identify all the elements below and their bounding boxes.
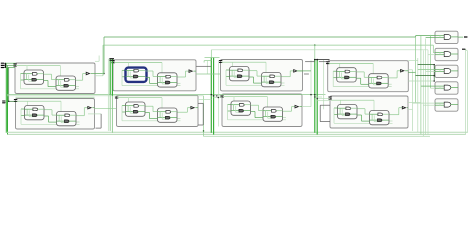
wire FF3.A input S [337, 70, 345, 72]
wire gap4 v3 [417, 58, 419, 132]
wire FF4.B input R [57, 120, 65, 122]
wire FF4.B Q out [70, 114, 76, 116]
wire gap3 v5 [323, 60, 325, 109]
wire left vertical 2 [7, 68, 9, 135]
wire SET to FF0 [6, 64, 15, 66]
wire Y4 in1 [435, 102, 444, 104]
junction gap3 feed1 [314, 96, 315, 97]
wire gap2 FF6 feed2 [214, 97, 222, 99]
wire FF5 feedback riser [121, 106, 123, 121]
gate FF1.B.G2 (NAND) [166, 81, 170, 84]
wire gap3 FF7 feed1 [315, 96, 322, 98]
wire FF4 A.Qn to B [45, 115, 49, 117]
wire Y4 riser [439, 103, 441, 105]
gate FF5.A.G1 (NAND) [134, 105, 139, 108]
wire to Y0 bend [415, 36, 417, 38]
wire FF0.B input R [56, 85, 64, 87]
input pin E [2, 102, 6, 103]
flip-flop stage FF4 [16, 99, 95, 130]
wire FF5 A in2 [122, 111, 126, 113]
wire FF5 A in1 [122, 105, 126, 107]
wire FF0.A input S [24, 73, 32, 75]
output pin FF5.Q [191, 106, 194, 108]
wire FF1.A Q out [139, 70, 145, 72]
wire FF2.A Q out [243, 69, 249, 71]
pin stubs FF2 inputs [219, 61, 222, 63]
wire FF3.A Q out [350, 70, 356, 72]
wire FF5 A.Qn drop [149, 113, 151, 119]
wire FF5.A input S [126, 105, 134, 107]
wire CLK to FF0 [6, 62, 15, 64]
wire gap3 FF7 feed2 [317, 98, 330, 100]
wire FF7 clock top run [331, 99, 374, 101]
wire FF4.A input R [25, 114, 33, 116]
wire FF2 Q to border [298, 70, 302, 72]
wire Y1 riser [439, 53, 441, 55]
wire FF6 to out pin [292, 106, 296, 108]
wire FF7 out link [408, 102, 421, 104]
wire Y0 input feed [416, 35, 435, 37]
wire FF5 B.Q up [186, 108, 188, 113]
wire FF0 out2 top run [103, 44, 433, 46]
wire FF3.A feedback riser [340, 73, 342, 79]
wire FF4.A inner riser [26, 109, 28, 115]
output pin OUT [464, 36, 468, 37]
wire FF6.Q exit [302, 106, 311, 108]
wire FF1 A in2 [122, 76, 126, 78]
wire FF1.A inner riser [127, 71, 129, 77]
wire FF1 B.Q up [185, 71, 187, 77]
wire FF3 A.Qn to B [357, 77, 361, 79]
wire FF0.A Q out [37, 73, 43, 75]
wire FF7.B Qn out [382, 119, 389, 121]
wire Y2 in1 [435, 69, 444, 71]
wire FF0 clock drop A [26, 66, 28, 74]
wire FF0 B in2 [48, 86, 56, 88]
wire FF1 feedback bottom run [122, 85, 181, 87]
latch FF2.A [230, 67, 250, 81]
latch FF1.A (selected) [126, 68, 147, 82]
junction gap3 feed2 [317, 98, 318, 99]
wire FF4 A in2 [21, 115, 25, 117]
wire FF3 clock drop A [339, 63, 341, 71]
wire FF6.A Q out [244, 104, 250, 106]
wire FF4.B input S [57, 114, 65, 116]
wire FF0.B input S [56, 79, 64, 81]
wire FF4.B cross link [61, 122, 68, 124]
wire gap3 pair a upper [314, 45, 316, 59]
wire FF2 A.Q to B [250, 70, 258, 72]
wire FF2 clock drop A [232, 62, 234, 70]
wire FF5 feedback bottom run [122, 120, 181, 122]
wire FF0 A.Qn drop [47, 81, 49, 87]
wire Y3 out [450, 87, 458, 89]
wire FF2 A.Q drop [256, 71, 258, 76]
wire FF1 out top run [211, 49, 428, 51]
gate FF2.A.G1 (NAND) [238, 69, 243, 72]
wire gap1 bright pair b [111, 59, 113, 96]
gate FF4.A.G1 (NAND) [33, 108, 38, 111]
wire gap2 corner h2 [204, 60, 211, 62]
wire FF0.B Q out [69, 79, 75, 81]
gate FF2.B.G1 (NAND) [270, 75, 275, 78]
wire FF1.B Qn out [170, 81, 177, 83]
wire gap3 gray loop v [319, 105, 321, 121]
wire FF6 feedback riser [227, 105, 229, 120]
wire gap2 FF6 feed1 [211, 95, 222, 97]
wire left vertical 1 upper [5, 63, 7, 68]
latch FF6.B [263, 107, 283, 121]
wire FF2.A feedback riser [233, 71, 235, 77]
wire left vertical 1 [5, 68, 7, 133]
output pin FF7.Q [402, 106, 405, 108]
wire FF4 to out pin [84, 107, 88, 109]
latch FF3.A [337, 68, 357, 82]
wire FF7.B Q out [383, 113, 389, 115]
wire FF7.Q out [408, 108, 413, 110]
wire FF0.A feedback riser [28, 75, 30, 81]
wire Y3 in1 feed [421, 85, 435, 87]
wire gap3 gray h1 [305, 61, 315, 63]
wire FF4 B.Q out run [77, 115, 85, 117]
junction FF0.Q [103, 73, 105, 75]
wire RST to FF0 [6, 67, 15, 69]
wire FF1 B in2 [150, 82, 158, 84]
wire FF6 B in2 [255, 117, 263, 119]
wire FF7 B.Q out run [390, 114, 399, 116]
wire FF1.B Q out [171, 76, 177, 78]
wire FF3.B Qn out [381, 82, 388, 84]
wire FF3 Q to border [405, 70, 408, 72]
gate FF7.B.G2 (NAND) [378, 119, 383, 122]
wire FF5 B.Qn out [178, 118, 181, 120]
wire gap2 corner stub [203, 61, 205, 63]
wire gap3 v1 lower [310, 95, 312, 107]
gate FF0.A.G1 (NAND) [32, 73, 37, 76]
wire gap4 h5 [408, 80, 434, 82]
wire FF4.B Qn out [69, 120, 76, 122]
wire FF0 A.Q to B [44, 73, 52, 75]
wire FF1 A.Q to B [146, 70, 154, 72]
wire Y1 in2 feed [428, 54, 435, 56]
wire FF6.A input S [231, 104, 239, 106]
wire Y2 in2 feed [426, 71, 435, 73]
wire FF7.A input S [338, 107, 346, 109]
wire EN vertical [465, 49, 467, 134]
junction gap3 b [316, 59, 318, 61]
gate FF6.A.G1 (NAND) [239, 104, 244, 107]
input pin CLK [1, 63, 5, 64]
wire FF1 Q to border [194, 70, 197, 72]
wire FF5 clock drop A [128, 98, 130, 106]
wire gap3 bright pair b [316, 59, 318, 135]
junction gap3 row a [310, 94, 312, 96]
wire FF2.B cross link [266, 83, 273, 85]
wire into FF4 [9, 100, 16, 102]
latch FF7.B [370, 111, 390, 125]
wire FF5 to out pin [187, 107, 191, 109]
wire FF4 A.Qn drop [48, 116, 50, 122]
wire FF0.Q riser [103, 37, 105, 74]
wire FF6 A in1 [228, 104, 232, 106]
output pin FF4.Q [88, 106, 91, 108]
wire FF5 clock top run [118, 97, 163, 99]
wire FF7 A in2 [334, 114, 338, 116]
wire FF5 Q to border [195, 107, 198, 109]
wire FF5 B in1 [153, 111, 158, 113]
wire FF4 Q to border [92, 107, 94, 109]
wire FF7 A.Q drop [364, 109, 366, 114]
wire Y3 in2 [435, 87, 444, 89]
wire Y0 out [450, 36, 458, 38]
wire FF1.B cross link [162, 83, 169, 85]
wire FF4 B.Q up [83, 108, 85, 116]
wire gap4 v8 [430, 35, 432, 88]
wire FF2 A.Qn to B [250, 76, 254, 78]
wire gap2 gray loop bottom [198, 124, 203, 126]
wire FF6.A input R [231, 110, 239, 112]
output AND stage Y0 [435, 31, 458, 43]
gate Y2 AND [444, 69, 451, 74]
wire FF6 B.Q out run [283, 110, 292, 112]
wire FF3.B input R [369, 82, 377, 84]
input pin D [2, 100, 6, 101]
wire Y2 riser [439, 70, 441, 72]
output pin FF0.Q [86, 72, 89, 74]
wire FF0.Q out [95, 73, 104, 75]
wire FF5 A.Q drop [152, 106, 154, 111]
output pin FF3.Q [401, 70, 404, 72]
flip-flop stage FF6 [222, 94, 302, 127]
junction left pins [5, 63, 6, 68]
wire FF5.Q to FF6 [198, 99, 211, 101]
gate FF4.A.G2 (NAND) [33, 114, 38, 117]
wire FF7 feedback bottom run [334, 122, 393, 124]
wire gap4 v4 [420, 36, 422, 134]
wire FF2 to out pin [290, 70, 294, 72]
wire FF3 clock drop B [372, 63, 374, 73]
wire FF6.A cross link [236, 111, 243, 113]
wire FF0.A input R [24, 79, 32, 81]
wire FF3 feedback riser [332, 71, 334, 86]
wire row bus 2 [7, 95, 204, 97]
wire FF3 to out pin [397, 70, 401, 72]
wire FF0 A in2 [21, 79, 25, 81]
wire FF2 B.Q up [289, 71, 291, 77]
wire FF0.B feedback riser [60, 81, 62, 87]
wire FF3 clock top run [329, 62, 374, 64]
latch FF7.A [338, 105, 358, 119]
wire FF0 clock top run [16, 65, 61, 67]
wire Y2 in1 feed [418, 69, 435, 71]
gate FF7.B.G1 (NAND) [378, 113, 383, 116]
wire FF6 B.Qn out [283, 117, 286, 119]
wire Y1 in1 feed [433, 52, 435, 54]
input pin RST [1, 67, 5, 68]
wire FF4 B.Qn out [77, 121, 80, 123]
wire FF0.Q top run [104, 36, 416, 38]
wire FF1.A feedback riser [129, 72, 131, 78]
wire gap2 v5 [218, 60, 220, 127]
wire bottom bus 1 [6, 131, 467, 133]
wire gap1 gray return [96, 127, 102, 129]
wire FF6 B.Q up [291, 107, 293, 112]
wire EN stub [464, 48, 466, 50]
gate FF1.B.G1 (NAND) [166, 75, 171, 78]
wire FF3 B in2 [361, 83, 369, 85]
wire gap2 pair a upper [210, 50, 212, 58]
wire gap3 gray loop top [320, 104, 330, 106]
wire FF1 A in1 [122, 69, 126, 71]
gate Y1 AND [444, 52, 451, 57]
wire FF6.A feedback riser [235, 106, 237, 112]
wire FF3.B cross link [373, 84, 380, 86]
wire FF7.A input R [338, 113, 346, 115]
wire FF0 feedback bottom run [21, 88, 80, 90]
wire FF0 B.Qn out [76, 86, 79, 88]
wire FF5 A.Q to B [146, 105, 154, 107]
wire FF6.A Qn out [244, 110, 251, 112]
latch FF3.B [369, 74, 389, 88]
wire gap2 bright pair b [213, 58, 215, 135]
wire FF0.B cross link [61, 86, 68, 88]
wire FF6.B Qn out [276, 116, 283, 118]
gate FF3.B.G1 (NAND) [377, 76, 382, 79]
latch FF4.B [57, 112, 77, 126]
wire FF2.A cross link [234, 77, 241, 79]
wire FF1 to out pin [186, 70, 190, 72]
wire FF7 to out pin [399, 107, 403, 109]
wire FF5.A inner riser [127, 106, 129, 112]
wire FF0 A.Qn to B [44, 80, 48, 82]
wire FF7 A.Qn drop [361, 115, 363, 121]
gate Y0 AND [444, 35, 451, 40]
output pin FF6.Q [295, 105, 298, 107]
wire FF6.B Q out [276, 110, 282, 112]
wire FF2 A.Qn drop [253, 77, 255, 83]
wire gap4 h4 [416, 75, 435, 77]
wire FF3 B in1 [364, 76, 369, 78]
latch FF6.A [231, 101, 251, 115]
wire FF7.A Q out [351, 107, 357, 109]
wire gap1 gray drop [100, 114, 102, 128]
gate FF3.A.G1 (NAND) [345, 70, 350, 73]
wire FF7.A inner riser [339, 108, 341, 114]
wire gap4 v5 [422, 50, 424, 136]
wire FF0 out2 riser [102, 45, 104, 76]
wire bottom bus 3 [204, 135, 431, 137]
gate FF6.A.G2 (NAND) [239, 109, 244, 112]
wire Y4 in2 feed [423, 104, 435, 106]
wire FF0.A Qn out [37, 79, 44, 81]
wire FF6 A.Qn to B [251, 111, 255, 113]
gate FF3.A.G2 (NAND) [345, 76, 350, 79]
wire FF3 A.Q to B [357, 71, 365, 73]
wire FF1.B input S [158, 76, 166, 78]
wire FF7.B input S [370, 113, 378, 115]
wire Y3 riser [439, 86, 441, 88]
gate FF7.A.G2 (NAND) [346, 113, 351, 116]
wire FF2.A Qn out [242, 75, 249, 77]
flip-flop stage FF1 [113, 60, 196, 91]
wire FF4 clock drop A [27, 101, 29, 109]
wire FF4 clock top run [17, 100, 62, 102]
wire gap1 bright pair a [109, 59, 111, 95]
wire FF5 B.Q out run [178, 111, 188, 113]
junction gap2 feed2 [218, 97, 219, 98]
junction gap2 a [211, 94, 213, 96]
wire FF2 clock top run [222, 61, 267, 63]
wire FF2.B Q out [275, 75, 281, 77]
wire FF3 A in2 [333, 77, 337, 79]
wire FF1.A Qn out [138, 75, 145, 77]
wire FF4.Qn exit [88, 113, 101, 115]
flip-flop stage FF3 [328, 61, 409, 92]
wire FF7 clock drop B [373, 100, 375, 110]
wire FF4.A cross link [29, 116, 36, 118]
wire FF6.B feedback riser [267, 112, 269, 118]
wire FF5.A Q out [139, 105, 145, 107]
wire FF3 A in1 [333, 70, 337, 72]
wire FF3.A Qn out [349, 76, 356, 78]
wire FF6.A inner riser [233, 105, 235, 111]
wire FF3 feedback bottom run [333, 86, 392, 88]
wire FF6.B inner riser [265, 111, 267, 117]
wire FF2 B in2 [254, 82, 262, 84]
junction tap c [433, 80, 435, 82]
wire FF1 clock drop B [161, 63, 163, 73]
gate FF6.B.G1 (NAND) [271, 110, 276, 113]
latch FF0.B [56, 76, 76, 90]
wire FF7 Q to border [407, 107, 408, 109]
wire gap3 gray h2 [319, 61, 330, 63]
wire EN joint [466, 50, 468, 52]
wire FF6 A.Qn drop [254, 112, 256, 118]
wire FF4 feedback bottom run [21, 123, 80, 125]
junction gap3 row b [314, 94, 316, 96]
input pin SET [1, 65, 5, 66]
wire FF3.B Q out [382, 76, 388, 78]
gate FF0.B.G2 (NAND) [64, 84, 69, 87]
wire Y0 riser [439, 36, 441, 38]
wire FF7 B in2 [362, 120, 370, 122]
flip-flop stage FF5 [117, 95, 199, 127]
wire FF7 B in1 [365, 113, 370, 115]
wire FF6.B input S [263, 110, 271, 112]
wire gap1 v1 [107, 59, 109, 131]
wire Y0 in2 [435, 37, 444, 39]
latch FF2.B [262, 73, 282, 87]
wire FF2 clock drop B [265, 62, 267, 72]
junction bottom x203 [203, 130, 205, 132]
wire FF3.B input S [369, 76, 377, 78]
output AND stage Y3 [435, 82, 458, 94]
wire EN vertical 2 [467, 51, 469, 133]
wire gap2 v1 [206, 61, 208, 74]
gate FF6.B.G2 (NAND) [271, 115, 276, 118]
wire gap2 corner h1 [205, 57, 220, 59]
wire FF0.A cross link [29, 80, 36, 82]
wire FF5.A input R [126, 111, 134, 113]
wire FF4 feedback riser [20, 109, 22, 124]
pin stubs FF4 inputs [14, 100, 17, 102]
wire FF5.A cross link [130, 112, 137, 114]
gate FF4.B.G1 (NAND) [65, 114, 70, 117]
output pin FF2.Q [294, 70, 297, 72]
wire FF2 feedback riser [225, 70, 227, 85]
wire FF3 B.Q up [396, 71, 398, 78]
wire FF1.B input R [158, 81, 166, 83]
